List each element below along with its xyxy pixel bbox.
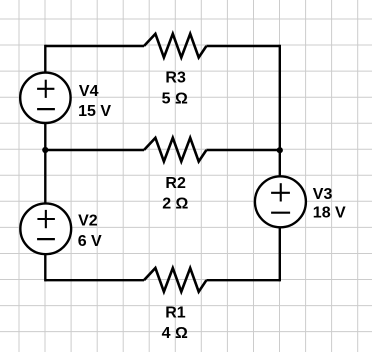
svg-text:6 V: 6 V [78,233,102,250]
voltage source V2 [20,203,71,254]
svg-text:R2: R2 [165,175,186,192]
svg-text:5 Ω: 5 Ω [162,90,188,107]
svg-text:V2: V2 [78,213,98,230]
node right junction [277,147,283,153]
resistor R3 [144,34,206,58]
wire bottom right segment [206,279,279,281]
wire top left segment [45,45,144,47]
svg-text:R1: R1 [165,305,186,322]
resistor R2 [144,138,206,162]
voltage source V4 [20,73,70,123]
wire left vertical [44,45,46,282]
svg-text:V3: V3 [313,186,333,203]
svg-text:15 V: 15 V [78,103,111,120]
svg-text:2 Ω: 2 Ω [162,195,188,212]
wire bottom left segment [45,279,144,281]
voltage source V3 [255,176,306,227]
svg-text:4 Ω: 4 Ω [162,325,188,342]
node left junction [42,147,48,153]
wire top right segment [206,45,279,47]
resistor R1 [144,268,206,292]
svg-text:V4: V4 [79,83,99,100]
wire middle right segment [206,149,279,151]
wire right vertical [279,45,281,282]
svg-text:18 V: 18 V [313,205,346,222]
wire middle left segment [45,149,144,151]
svg-text:R3: R3 [165,70,186,87]
